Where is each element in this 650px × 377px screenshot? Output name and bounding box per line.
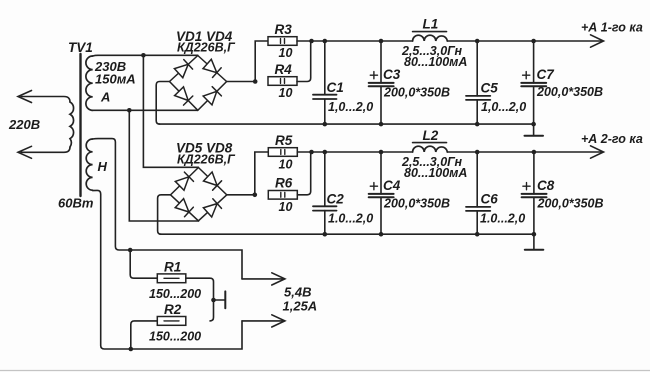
svg-text:R2: R2 [164, 302, 182, 317]
wire R3 left riser [255, 41, 268, 82]
wire 220V input top lead [21, 97, 70, 103]
resistor R6 power marks [281, 192, 285, 197]
choke L1 winding [413, 35, 448, 41]
svg-text:60Вт: 60Вт [58, 196, 94, 211]
svg-text:200,0*350В: 200,0*350В [383, 197, 450, 211]
svg-text:1.0...2,0: 1.0...2,0 [328, 212, 373, 226]
node junction dot C3 bottom [379, 122, 384, 127]
arrow 220V bottom [18, 146, 32, 158]
node junction dot C2 top [323, 150, 328, 155]
node junction dot C5 top [475, 39, 480, 44]
svg-text:R3: R3 [275, 22, 293, 37]
node junction dot C4 top [379, 150, 384, 155]
node junction dot C4 bottom [379, 232, 384, 237]
diode VD8 [203, 199, 221, 217]
capacitor C1 [313, 41, 337, 124]
diode VD5 [175, 172, 193, 190]
svg-text:H: H [98, 159, 108, 174]
polarity plus (C4) [370, 183, 377, 190]
polarity plus (C7) [523, 72, 530, 79]
svg-text:КД226В,Г: КД226В,Г [177, 41, 236, 55]
node junction dot R3/R4 on rail 1 [309, 39, 314, 44]
node junction dot heater line 2 [129, 347, 134, 352]
node junction dot centre tap [211, 298, 216, 303]
svg-text:10: 10 [279, 200, 293, 214]
diode VD4 [203, 87, 221, 105]
node junction dot C8 top [532, 150, 537, 155]
node junction dot R5/R6 on rail 2 [309, 150, 314, 155]
node junction dot bridge1 output [253, 79, 258, 84]
svg-text:C6: C6 [481, 192, 499, 207]
wire winding A top terminal to bridge VD1-VD4 top vertex [93, 54, 198, 57]
svg-text:150...200: 150...200 [149, 330, 201, 344]
svg-text:КД226В,Г: КД226В,Г [177, 153, 236, 167]
wire plus rail 2 after choke L2 to arrow [447, 151, 603, 153]
polarity plus (C8) [523, 183, 530, 190]
wire plus rail 2 before choke L2 [312, 151, 413, 153]
common tap bar [224, 291, 226, 308]
capacitor C3 (electrolytic) [369, 41, 394, 124]
svg-text:10: 10 [279, 46, 293, 60]
node junction dot C1 top [323, 39, 328, 44]
svg-text:1,0...2,0: 1,0...2,0 [481, 100, 526, 114]
capacitor C5 [466, 41, 490, 124]
svg-text:C3: C3 [383, 67, 401, 82]
wire R1 right to tap [186, 278, 214, 321]
resistor R6 [268, 191, 297, 200]
svg-text:C5: C5 [481, 81, 499, 96]
diode VD3 [175, 87, 193, 105]
resistor R4 power marks [281, 79, 285, 84]
svg-text:А: А [100, 90, 110, 105]
resistor R5 [268, 148, 297, 157]
resistor R4 [268, 77, 297, 86]
wire minus rail 1 (bottom rail section 1) [159, 123, 534, 125]
svg-text:R1: R1 [164, 260, 181, 275]
capacitor C4 (electrolytic) [369, 152, 394, 234]
wire R3 to rail 1 [297, 40, 312, 42]
node junction dot C7 top [531, 39, 536, 44]
node junction dot C8 bottom [532, 232, 537, 237]
ground stub below rail 2 [533, 234, 535, 250]
svg-text:C4: C4 [383, 178, 401, 193]
wire H top terminal down to output line 1 [93, 139, 242, 279]
wire winding A bottom terminal to bridge VD1-VD4 bottom vertex [93, 109, 198, 111]
svg-text:200,0*350В: 200,0*350В [536, 85, 603, 99]
node junction dot C7 bottom [531, 122, 536, 127]
transformer TV1 core [79, 54, 81, 196]
resistor R1 [157, 274, 186, 283]
wire R6 right riser to rail 2 [297, 152, 311, 195]
svg-text:1,25А: 1,25А [283, 299, 318, 314]
svg-text:10: 10 [279, 158, 293, 172]
svg-text:1,0...2,0: 1,0...2,0 [328, 100, 373, 114]
wire bridge1 left vertex down to minus rail 1 [156, 82, 169, 125]
resistor R3 [268, 37, 297, 46]
svg-text:C2: C2 [327, 192, 345, 207]
svg-text:5,4В: 5,4В [284, 285, 311, 300]
svg-text:200,0*350В: 200,0*350В [537, 197, 604, 211]
wire plus rail 1 before choke L1 [312, 40, 413, 42]
ground bar (section 2 common) [525, 249, 544, 251]
wire bridge1 output to R3/R4 [227, 81, 256, 83]
capacitor C2 [313, 152, 337, 234]
node junction dot C2 bottom [323, 232, 328, 237]
resistor R3 power marks [281, 39, 285, 44]
resistor R1 power mark [164, 277, 179, 279]
svg-text:C8: C8 [537, 178, 555, 193]
transformer winding A (230V 150mA) [86, 56, 93, 110]
wire R2 left riser to bottom heater line [131, 321, 158, 349]
svg-text:200,0*350В: 200,0*350В [383, 86, 450, 100]
resistor R2 [157, 317, 186, 326]
scan edge artifact bottom [0, 370, 650, 372]
arrow heater output 2 [242, 320, 284, 322]
svg-text:R4: R4 [275, 62, 293, 77]
wire A-top dot down and across to bridge VD5-VD8 top vertex [143, 55, 198, 167]
capacitor C6 [466, 152, 490, 234]
wire R5 to rail 2 [297, 151, 311, 153]
node junction dot bridge2 output [253, 193, 258, 198]
svg-text:150...200: 150...200 [149, 287, 201, 301]
svg-text:+А 2-го ка: +А 2-го ка [581, 132, 643, 146]
wire R4 right riser to rail 1 [297, 41, 312, 82]
svg-text:+А 1-го ка: +А 1-го ка [581, 21, 643, 35]
svg-text:TV1: TV1 [68, 40, 93, 55]
svg-text:C7: C7 [537, 67, 556, 82]
polarity plus (C3) [370, 72, 377, 79]
svg-text:R6: R6 [275, 176, 293, 191]
node junction dot C3 top [379, 39, 384, 44]
arrow output +A 1st channel [591, 35, 604, 47]
transformer TV1 primary winding [70, 102, 74, 147]
svg-text:10: 10 [279, 86, 293, 100]
arrow output +A 2nd channel [591, 146, 604, 158]
svg-text:C1: C1 [327, 80, 344, 95]
svg-text:R5: R5 [275, 133, 293, 148]
capacitor C8 (electrolytic) [522, 152, 547, 234]
transformer winding H (heater) [86, 139, 92, 190]
wire minus rail 2 (bottom rail section 2) [160, 233, 534, 235]
svg-text:220В: 220В [8, 117, 40, 132]
wire plus rail 1 after choke L1 to arrow [447, 40, 603, 42]
choke L2 winding [413, 146, 448, 152]
wire R1 left riser [130, 250, 157, 278]
diode VD7 [175, 199, 193, 217]
node junction dot C5 bottom [475, 122, 480, 127]
wire A-bottom dot down and across to bridge VD5-VD8 bottom vertex [129, 110, 198, 221]
node junction dot C1 bottom [323, 122, 328, 127]
wire bridge2 output to R5/R6 [227, 194, 255, 196]
wire bridge2 left vertex down to minus rail 2 [158, 195, 171, 234]
diode VD1 [174, 60, 192, 78]
arrow heater output 1 [242, 278, 284, 280]
svg-text:1.0...2,0: 1.0...2,0 [480, 212, 525, 226]
node junction dot A-bottom feed [127, 108, 132, 113]
node junction dot heater line 1 [128, 248, 133, 253]
arrow 220V top [18, 91, 32, 103]
svg-text:L1: L1 [423, 17, 439, 32]
wire H bottom terminal down to output line 2 [93, 190, 242, 349]
node junction dot C6 top [475, 150, 480, 155]
diode VD2 [203, 59, 221, 77]
choke L1 core bar [413, 31, 447, 33]
svg-text:80...100мА: 80...100мА [404, 166, 467, 180]
resistor R2 power mark [164, 320, 179, 322]
node junction dot C6 bottom [475, 232, 480, 237]
node junction dot A-top feed [141, 53, 146, 58]
wire R5 left riser [255, 152, 268, 195]
svg-text:150мА: 150мА [95, 72, 136, 87]
choke L2 core bar [413, 142, 447, 144]
bridge rectifier VD5-VD8 diamond outline [171, 168, 227, 221]
svg-text:L2: L2 [423, 128, 439, 143]
bridge rectifier VD1-VD4 diamond outline [170, 56, 227, 111]
resistor R5 power marks [281, 150, 285, 155]
svg-text:80...100мА: 80...100мА [404, 55, 467, 69]
diode VD6 [204, 172, 222, 190]
wire centre tap stub [214, 299, 225, 301]
capacitor C7 (electrolytic) [521, 41, 546, 124]
wire 220V input bottom lead [21, 147, 70, 152]
ground stub below rail 1 [533, 124, 535, 136]
ground bar (section 1 common) [525, 135, 544, 137]
